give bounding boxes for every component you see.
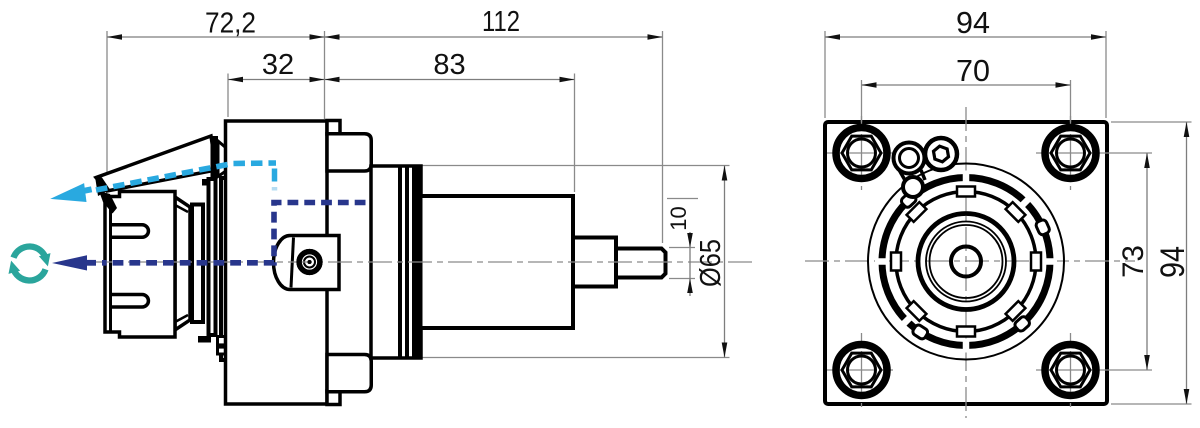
- svg-text:73: 73: [1117, 245, 1150, 278]
- svg-text:94: 94: [1154, 246, 1192, 278]
- svg-text:94: 94: [956, 6, 990, 40]
- svg-text:Ø65: Ø65: [695, 239, 727, 287]
- svg-text:10: 10: [666, 206, 691, 230]
- svg-text:70: 70: [956, 54, 990, 88]
- svg-text:32: 32: [262, 49, 294, 81]
- svg-text:112: 112: [482, 6, 520, 38]
- svg-text:83: 83: [433, 49, 465, 81]
- svg-text:72,2: 72,2: [205, 8, 256, 40]
